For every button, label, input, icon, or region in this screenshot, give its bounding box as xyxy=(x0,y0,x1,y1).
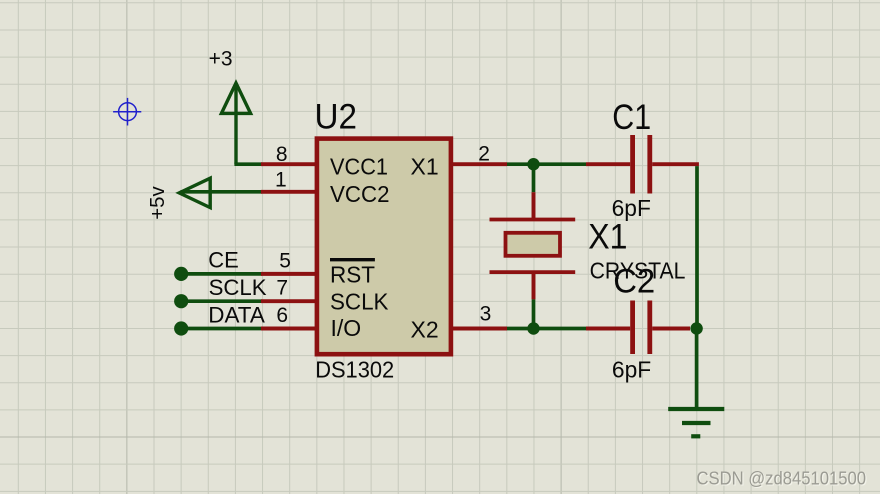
wire: X1 top node to C1 xyxy=(534,162,587,166)
node junction dot (pin2/X1/C1) xyxy=(527,158,539,170)
svg-text:6: 6 xyxy=(276,304,288,327)
U2 pin 7 stub xyxy=(261,299,317,303)
wire: DATA to U2 pin 6 xyxy=(181,327,262,331)
svg-text:X2: X2 xyxy=(411,316,439,342)
capacitor C1 right pin xyxy=(652,162,699,166)
svg-text:SCLK: SCLK xyxy=(330,289,389,315)
U2 pin 5 stub xyxy=(261,272,317,276)
wire: X1 pin down to bottom node xyxy=(532,299,536,328)
svg-text:+5v: +5v xyxy=(147,186,169,220)
wire: node down to ground xyxy=(695,329,699,410)
power symbol +5v (left arrow) xyxy=(179,178,210,207)
svg-text:VCC1: VCC1 xyxy=(330,153,388,179)
wire: pin 3 to X1 bottom node xyxy=(507,327,534,331)
node junction dot (C2/ground) xyxy=(690,322,702,334)
svg-text:6pF: 6pF xyxy=(612,195,651,221)
svg-text:VCC2: VCC2 xyxy=(330,181,390,207)
IC U2 body (DS1302) xyxy=(317,139,451,355)
capacitor C1 right plate xyxy=(647,135,652,194)
svg-text:DS1302: DS1302 xyxy=(315,356,394,382)
svg-text:6pF: 6pF xyxy=(612,357,651,383)
svg-text:CSDN @zd845101500: CSDN @zd845101500 xyxy=(697,467,867,488)
capacitor C1 left plate xyxy=(630,135,635,194)
svg-text:RST: RST xyxy=(330,261,375,287)
node DATA terminal dot xyxy=(174,321,188,335)
capacitor C2 left plate xyxy=(630,301,635,355)
svg-text:SCLK: SCLK xyxy=(209,275,267,300)
crystal X1 top plate xyxy=(490,218,576,222)
crystal X1 bottom pin xyxy=(532,272,536,299)
U2 pin 6 stub xyxy=(261,327,317,331)
capacitor C1 left pin xyxy=(586,162,630,166)
crystal X1 body xyxy=(506,233,561,256)
power symbol +3 (up arrow) xyxy=(221,83,250,164)
U2 pin 8 stub xyxy=(261,162,317,166)
svg-text:8: 8 xyxy=(276,143,288,166)
wire: +3 to U2 pin 8 xyxy=(234,162,262,166)
svg-text:1: 1 xyxy=(275,168,287,191)
svg-text:C2: C2 xyxy=(613,263,655,301)
wire: C1 right down to C2 right node xyxy=(695,166,699,328)
wire: top node down to X1 pin xyxy=(532,164,536,192)
svg-text:U2: U2 xyxy=(315,98,358,137)
node junction dot (pin3/X1/C2) xyxy=(527,322,539,334)
ground symbol xyxy=(668,409,724,436)
svg-text:C1: C1 xyxy=(612,98,651,137)
wire: X1 bottom node to C2 xyxy=(534,327,587,331)
node CE terminal dot xyxy=(174,267,188,281)
svg-text:X1: X1 xyxy=(411,153,439,179)
U2 pin 2 stub xyxy=(451,162,507,166)
capacitor C2 right plate xyxy=(647,301,652,355)
svg-text:I/O: I/O xyxy=(331,315,362,341)
node SCLK terminal dot xyxy=(174,294,188,308)
wire: CE to U2 pin 5 xyxy=(181,272,262,276)
wire: SCLK to U2 pin 7 xyxy=(181,299,262,303)
svg-text:X1: X1 xyxy=(588,217,627,256)
crystal X1 bottom plate xyxy=(490,270,576,274)
crystal X1 top pin xyxy=(532,192,536,219)
svg-text:CE: CE xyxy=(208,247,239,272)
U2 pin 3 stub xyxy=(451,327,507,331)
U2 pin 1 stub xyxy=(261,190,317,194)
capacitor C2 right pin xyxy=(652,327,690,331)
svg-text:7: 7 xyxy=(276,277,288,300)
svg-text:DATA: DATA xyxy=(208,302,265,327)
svg-text:+3: +3 xyxy=(209,47,233,70)
svg-text:5: 5 xyxy=(279,250,291,273)
origin marker xyxy=(113,98,141,126)
wire: pin 2 to X1 top node xyxy=(507,162,534,166)
wire: +5v to U2 pin 1 xyxy=(181,190,263,194)
capacitor C2 left pin xyxy=(586,327,630,331)
svg-text:2: 2 xyxy=(478,143,490,166)
svg-text:3: 3 xyxy=(480,302,492,325)
